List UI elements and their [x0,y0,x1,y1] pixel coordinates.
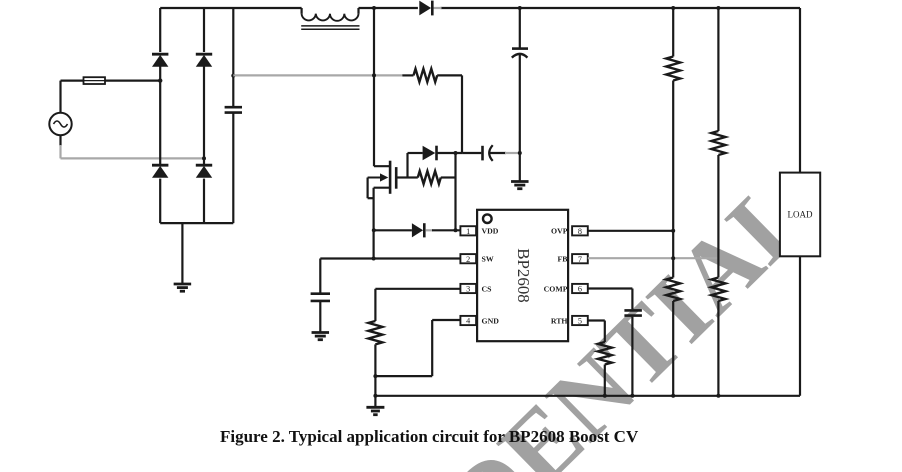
wire CS row [375,288,460,290]
fuse F1 [84,77,106,84]
junction AC neutral at bridge right leg [202,156,206,160]
svg-text:7: 7 [578,255,582,264]
svg-text:FB: FB [558,255,568,264]
U1 pin label RTH [551,316,568,325]
watermark CONFIDENTIAL [233,196,793,472]
wire Q1 gate hook horizontal [368,197,374,199]
capacitor C4 SW [311,294,330,301]
wire AC neutral gray [61,157,205,159]
junction top bus at FB divider [716,6,720,10]
capacitor C3 output [512,49,528,58]
diode D1 bridge top-left [152,54,168,66]
diode D4 bridge bottom-right [196,165,212,178]
junction FB at OVP divider [671,256,675,260]
wire bridge ground tap [181,223,183,283]
svg-text:5: 5 [578,317,582,326]
resistor R4 FB upper [711,131,725,155]
U1 pin 1 box [460,226,476,236]
wire COMP row [588,287,633,289]
U1 pin label VDD [482,227,499,236]
AC source V1 [49,113,71,135]
wire bulk cap column upper [232,8,234,106]
resistor R8 FB lower [711,278,725,302]
U1 pin label CS [482,284,492,293]
wire top bus middle segment [359,7,418,9]
wire drain corner [374,165,390,167]
inductor L1 [301,8,359,29]
wire output cap column upper [519,8,521,49]
svg-text:GND: GND [482,316,500,325]
op-amp U1 BP2608 body [477,210,568,341]
wire bridge left leg middle [159,66,161,164]
U1 pin label COMP [544,284,568,293]
U1 pin label SW [482,255,494,264]
wire RTH row [588,319,605,321]
junction R6 at bus [603,394,607,398]
wire C2 left [462,152,481,154]
wire R6 to bus [604,365,606,396]
diode D3 bridge bottom-left [152,165,168,178]
wire AC source bottom black [59,135,61,146]
wire CS drop [374,289,376,321]
junction C2 at output cap column [518,151,522,155]
white mask right of LOAD [821,140,902,270]
wire FB divider bottom [717,301,719,396]
wire R2 column down to VDD [454,153,456,230]
LOAD [780,173,820,257]
svg-text:SW: SW [482,255,494,264]
wire top bus left segment [160,7,301,9]
U1 pin 4 box [460,316,476,326]
junction D6 cathode at R2 column [454,151,458,155]
wire OVP row [588,230,673,232]
caption Figure 2 [220,427,638,447]
junction C5 at bus [630,394,634,398]
resistor R7 OVP lower [666,278,680,302]
wire GND row [432,319,460,321]
wire OVP divider middle [672,81,674,278]
wire bridge right leg upper [203,8,205,52]
wire Q1 source [374,187,391,189]
wire SW cap drop [319,259,321,293]
junction top bus at OVP divider [671,6,675,10]
resistor R2 [408,171,456,184]
ground bridge [174,284,192,291]
svg-text:8: 8 [578,227,582,236]
wire main ground tap [374,396,376,407]
diode D5 boost rectifier [419,1,432,16]
svg-text:LOAD: LOAD [788,210,813,220]
wire D7 cathode to pin1 [432,229,460,231]
wire COMP drop [631,289,633,310]
U1 pin 8 box [572,226,588,236]
resistor R6 RTH [598,342,612,365]
wire drain column [373,8,375,166]
transistor Q1 MOSFET [368,161,397,194]
junction gray feed at drain column [372,73,376,77]
diode D7 VDD [412,223,424,237]
wire RTH drop [604,321,606,343]
wire top bus right segment [441,7,801,9]
wire D7 cathode gray stub [426,229,433,231]
svg-text:6: 6 [578,285,582,294]
U1 pin 3 box [460,284,476,294]
U1 pin 5 box [572,316,588,326]
wire FB divider middle [717,155,719,278]
wire VDD from source column [374,229,412,231]
svg-text:2: 2 [466,255,470,264]
diode D6 gate [408,146,463,161]
wire C2 right gray stub [505,152,520,154]
wire Q1 gate hook vertical [367,178,369,199]
capacitor C1 bulk [225,107,242,112]
resistor R5 CS [368,321,382,344]
junction fuse wire at bridge left leg [158,78,162,82]
wire R5 bottom [374,344,376,395]
svg-text:4: 4 [466,317,470,326]
wire OVP divider bottom [672,301,674,396]
resistor R3 OVP upper [666,57,680,81]
junction top bus at MOSFET drain column [372,6,376,10]
U1 pin 2 box [460,254,476,264]
junction top bus at output cap column [518,6,522,10]
wire R1 right drop [461,75,463,153]
svg-text:1: 1 [466,227,470,236]
diode D2 bridge top-right [196,54,212,66]
junction SW at source column [372,257,376,261]
junction FB divider at bus [716,394,720,398]
junction R2 column at VDD wire [454,228,458,232]
ground output cap [511,182,529,189]
wire gray stub after boost diode [433,7,442,9]
wire C5 to bus [631,317,633,396]
wire Q1 gate to node [396,176,407,178]
junction OVP at divider top [671,229,675,233]
wire AC live vertical [59,81,61,113]
wire output cap column lower [519,55,521,181]
junction R5 bottom with GND return [373,374,377,378]
U1 pin label OVP [551,227,568,236]
ground SW cap [312,333,330,340]
wire bridge bottom [160,222,233,224]
wire LOAD bottom [799,256,801,396]
wire FB row gray [588,257,719,259]
wire FB divider top [717,8,719,131]
wire bridge right leg middle [203,66,205,164]
wire OVP divider top [672,8,674,57]
wire C2 right black [490,152,507,154]
capacitor C5 COMP [624,310,642,315]
svg-text:BP2608: BP2608 [514,248,533,303]
wire bottom bus [375,395,800,397]
U1 pin 7 box [572,254,588,264]
junction gray feed at bulk cap column [231,74,235,78]
wire bulk cap column lower [232,114,234,224]
U1 pin label GND [482,316,500,325]
wire AC line to fuse [61,79,161,81]
svg-text:RTH: RTH [551,316,568,325]
U1 pin 6 box [572,284,588,294]
wire bridge left leg lower [159,179,161,224]
wire SW cap to ground [319,302,321,332]
wire GND return horizontal [375,375,432,377]
junction main ground at bus [373,394,377,398]
ground main [366,407,384,414]
U1 pin1 marker [483,214,492,223]
wire SW row [320,257,460,259]
svg-text:COMP: COMP [544,284,568,293]
junction OVP divider at bus [671,394,675,398]
wire source column to SW [373,188,375,259]
wire gray VCC feed [233,74,402,76]
wire GND return vertical [431,320,433,376]
svg-text:3: 3 [466,285,470,294]
wire bridge left leg upper [159,8,161,52]
wire LOAD top [799,8,801,173]
svg-text:OVP: OVP [551,227,568,236]
wire gate node vertical [406,153,408,178]
U1 pin label FB [558,255,568,264]
junction source column at VDD wire [372,228,376,232]
wire bridge right leg lower [203,179,205,224]
U1 label BP2608 [514,248,533,303]
capacitor C2 [483,145,493,161]
resistor R1 [402,69,462,82]
wire AC source bottom gray [59,145,61,158]
svg-text:VDD: VDD [482,227,499,236]
svg-text:CS: CS [482,284,492,293]
